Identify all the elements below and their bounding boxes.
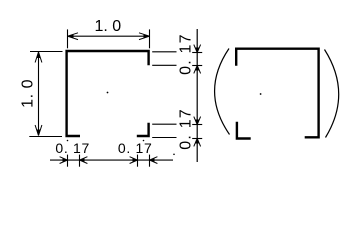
- arrow left onto x=79.5: [80, 157, 88, 164]
- right side chained dimension 0.17 / 0.17: extension lines from top-right notch: [152, 51, 176, 53]
- component outline (right figure): bottom-left foot and stub: [237, 122, 251, 139]
- center mark dot (right figure): [260, 93, 262, 95]
- svg-text:1. 0: 1. 0: [94, 18, 121, 35]
- land pattern outline (left figure): bottom-right foot and stub: [137, 123, 149, 136]
- vertical dimension line at right: [196, 29, 198, 162]
- arrowhead up: [35, 52, 42, 63]
- arrow down onto y=124.5: [194, 117, 201, 125]
- right parenthesis: [325, 50, 339, 138]
- artifact dot right of bottom dimension: [173, 154, 175, 156]
- tick at y=138.5: [192, 138, 202, 140]
- bottom chained dimension 0.17 / 0.17: dimension line: [50, 159, 173, 161]
- tick at x=67.5: [67, 155, 69, 167]
- tick at y=65.5: [192, 65, 202, 67]
- arrow up onto y=138.5: [194, 139, 201, 147]
- extension lines from bottom-right notch: [152, 123, 176, 125]
- arrowhead right (points right): [139, 33, 150, 40]
- tick at x=79.5: [79, 155, 81, 167]
- tick at y=124.5: [192, 124, 202, 126]
- arrowhead down: [35, 125, 42, 136]
- dimension 1.0 vertical (left): dimension line: [38, 52, 40, 136]
- arrow left onto x=149.5: [150, 157, 158, 164]
- svg-text:0. 17: 0. 17: [178, 108, 195, 150]
- dimension 1.0 vertical (left): extension line top: [30, 51, 63, 53]
- tick at x=137.5: [137, 155, 139, 167]
- svg-text:0. 17: 0. 17: [118, 140, 153, 156]
- dimension 1.0 horizontal (top): extension line right: [149, 29, 151, 48]
- arrow right onto x=137.5: [130, 157, 138, 164]
- left parenthesis: [215, 49, 230, 135]
- tick at x=149.5: [149, 155, 151, 167]
- svg-text:0. 17: 0. 17: [178, 33, 195, 75]
- arrow right onto x=67.5: [60, 157, 68, 164]
- center mark dot (left figure): [107, 92, 109, 94]
- arrow down onto y=52.5: [194, 45, 201, 53]
- artifact dot below bottom-left corner: [67, 140, 69, 142]
- component outline (right figure): top-left stub, top edge, right edge, bottom-right foot: [236, 49, 318, 138]
- dimension 1.0 vertical (left): extension line bottom: [29, 136, 62, 138]
- dimension 1.0 horizontal (top): dimension line: [68, 35, 150, 37]
- arrowhead left (points left): [68, 33, 79, 40]
- artifact dot below bottom-right foot: [143, 140, 145, 142]
- dimension 1.0 horizontal (top): extension line left: [67, 29, 69, 48]
- land pattern outline (left figure): top-right stub, top edge, left edge, bottom-left foot: [67, 51, 149, 136]
- tick at y=52.5: [192, 52, 202, 54]
- svg-text:0. 17: 0. 17: [55, 140, 90, 156]
- arrow up onto y=65.5: [194, 66, 201, 74]
- svg-text:1. 0: 1. 0: [19, 79, 36, 108]
